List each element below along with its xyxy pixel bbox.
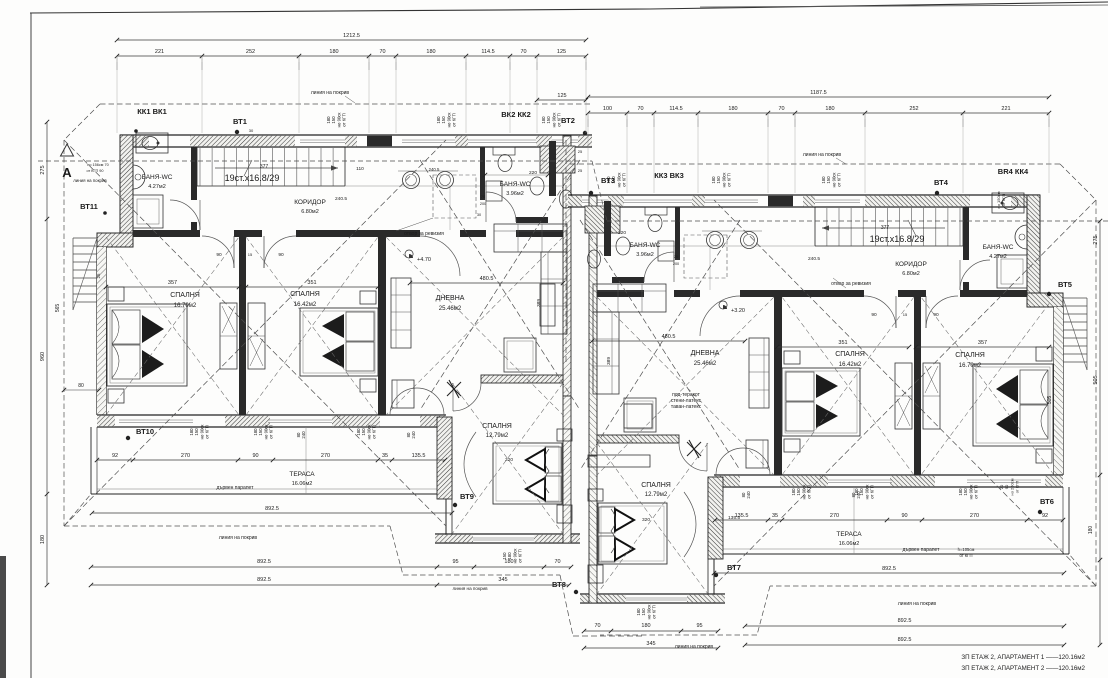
svg-text:114.5: 114.5 (669, 106, 682, 112)
top dimension chain overall left (117, 39, 586, 41)
svg-text:ВТ4: ВТ4 (934, 178, 949, 187)
living room sofa along divider (391, 278, 411, 348)
bottom dims under bedroom row right (715, 519, 1063, 521)
svg-text:90: 90 (252, 453, 258, 459)
top dimension chain segments left (117, 55, 586, 57)
room diagonals bedroom 2 (246, 237, 378, 415)
svg-text:505: 505 (1047, 396, 1053, 405)
svg-text:12.79м2: 12.79м2 (486, 433, 509, 439)
terrace outline and parapet (90, 427, 92, 494)
svg-text:70: 70 (379, 49, 385, 55)
bedroom 12.79 top wall (481, 375, 563, 383)
bathroom 1 east wall (191, 147, 197, 200)
svg-text:БАНЯ-WC: БАНЯ-WC (500, 181, 531, 188)
svg-text:125: 125 (557, 93, 566, 99)
svg-text:90: 90 (871, 312, 877, 318)
bottom dims bedroom 12.79 right (584, 630, 718, 632)
svg-text:389: 389 (536, 299, 542, 307)
svg-text:ВТ9: ВТ9 (460, 492, 474, 501)
svg-text:линия на покрив: линия на покрив (675, 644, 714, 650)
svg-text:4.27м2: 4.27м2 (989, 254, 1007, 260)
svg-text:320: 320 (505, 457, 513, 463)
exterior wall left upper (hatched) (120, 135, 133, 240)
svg-text:16.42м2: 16.42м2 (839, 362, 862, 368)
room width dims right (916, 346, 1049, 348)
bedroom 12.79 west wall lower (445, 499, 447, 543)
svg-text:от КГП: от КГП (1001, 194, 1006, 207)
revision hatch dashed rectangle (433, 175, 476, 218)
svg-text:892.5: 892.5 (898, 618, 912, 624)
svg-text:от КГП: от КГП (518, 549, 523, 562)
svg-text:92: 92 (112, 453, 118, 459)
sheet left border line (30, 13, 32, 678)
sheet top border line (30, 9, 650, 13)
svg-text:КОРИДОР: КОРИДОР (895, 261, 927, 268)
svg-text:от КГП: от КГП (622, 173, 627, 186)
svg-text:357: 357 (168, 280, 177, 286)
svg-text:892.5: 892.5 (257, 577, 271, 583)
bathroom 1 washbasin (133, 165, 145, 189)
svg-text:от КГП: от КГП (959, 553, 972, 558)
terrace mid line (305, 427, 307, 494)
svg-text:ВТ6: ВТ6 (1040, 497, 1054, 506)
room diagonals living (386, 237, 563, 415)
svg-text:70: 70 (637, 106, 643, 112)
section line A-A (38, 160, 592, 162)
svg-text:892.5: 892.5 (265, 506, 279, 512)
svg-text:252: 252 (909, 106, 918, 112)
svg-text:25.46м2: 25.46м2 (439, 306, 462, 312)
svg-text:180: 180 (329, 49, 338, 55)
svg-text:200: 200 (673, 262, 679, 266)
svg-text:от КГП: от КГП (727, 173, 732, 186)
bedroom 12.79 door arc (453, 383, 481, 411)
bed bedroom 12.79 (493, 443, 562, 504)
svg-text:70: 70 (778, 106, 784, 112)
svg-text:240.5: 240.5 (335, 196, 347, 202)
svg-text:357: 357 (978, 340, 987, 346)
svg-text:от КГП: от КГП (837, 173, 842, 186)
svg-text:30: 30 (249, 128, 254, 133)
svg-text:270: 270 (181, 453, 190, 459)
svg-text:ЗП ЕТАЖ 2, АПАРТАМЕНТ 1 ——120.: ЗП ЕТАЖ 2, АПАРТАМЕНТ 1 ——120.16м2 (961, 654, 1085, 661)
bed 2 nightstands (360, 291, 376, 304)
bottom dims terrace right chains (714, 572, 1064, 574)
svg-text:от КГП: от КГП (1015, 481, 1020, 494)
svg-text:180: 180 (825, 106, 834, 112)
svg-text:377: 377 (881, 225, 890, 231)
svg-text:892.5: 892.5 (898, 637, 912, 643)
svg-text:92: 92 (1042, 513, 1048, 519)
roof diagonal X over living wing (420, 160, 580, 410)
bathroom 2 shaft (540, 146, 575, 173)
roof line dashed outline (63, 140, 65, 526)
svg-text:от КГП: от КГП (974, 485, 979, 498)
exterior wall left lower (96, 247, 98, 415)
staircase flight (196, 147, 198, 186)
bedroom 12.79 bottom wall (435, 533, 580, 535)
svg-text:240.5: 240.5 (808, 256, 820, 262)
svg-text:25: 25 (578, 149, 583, 154)
svg-text:90: 90 (216, 252, 222, 258)
room diagonals bedroom 12.79 (452, 383, 563, 534)
svg-text:от КГП: от КГП (652, 605, 657, 618)
top dimension chain overall right (588, 96, 1049, 98)
svg-text:1212.5: 1212.5 (343, 33, 360, 39)
svg-text:320: 320 (642, 517, 650, 523)
bedroom divider wall 1 (239, 237, 246, 415)
room width dims left (106, 286, 239, 288)
left chain 125 repeat (537, 99, 586, 101)
svg-text:отвор за ревизия: отвор за ревизия (831, 281, 871, 287)
svg-text:линия на покрив: линия на покрив (219, 535, 258, 541)
svg-text:960: 960 (40, 352, 46, 361)
svg-text:16.70м2: 16.70м2 (174, 303, 197, 309)
svg-text:70: 70 (674, 255, 678, 259)
svg-text:110: 110 (356, 166, 364, 172)
sheet corner dark edge strip (0, 556, 6, 678)
svg-text:КК1 ВК1: КК1 ВК1 (137, 107, 167, 116)
svg-text:25: 25 (96, 273, 101, 279)
svg-text:КК3 ВК3: КК3 ВК3 (654, 171, 684, 180)
bed 12.79 pillows (545, 447, 561, 473)
stair direction arrow (215, 167, 338, 169)
svg-text:25: 25 (578, 168, 583, 173)
opening living room arc (420, 236, 460, 276)
roof hip bottom-left (64, 494, 91, 526)
bathroom 2 door arc (486, 192, 516, 222)
bathroom 2 washbasin (530, 177, 544, 195)
corridor floor line under stairs (345, 185, 563, 187)
svg-text:16.06м2: 16.06м2 (839, 541, 860, 547)
exterior wall step (97, 233, 133, 247)
svg-text:ДНЕВНА: ДНЕВНА (436, 295, 465, 302)
svg-text:СПАЛНЯ: СПАЛНЯ (641, 482, 671, 489)
bathroom 1 fixtures: toilet (136, 133, 168, 153)
svg-text:6.80м2: 6.80м2 (301, 209, 319, 215)
svg-text:ВТ2: ВТ2 (561, 116, 575, 125)
svg-text:12.79м2: 12.79м2 (645, 492, 668, 498)
roof hip top-left (64, 104, 100, 140)
svg-text:БАНЯ-WC: БАНЯ-WC (142, 174, 173, 181)
svg-text:19ст.х16.8/29: 19ст.х16.8/29 (225, 173, 280, 183)
terrace french door arcs (390, 388, 417, 415)
svg-text:35: 35 (772, 513, 778, 519)
svg-text:275: 275 (40, 165, 46, 174)
coffee table (504, 338, 536, 372)
svg-text:СПАЛНЯ: СПАЛНЯ (835, 351, 865, 358)
right living table (588, 455, 650, 467)
svg-text:16.42м2: 16.42м2 (294, 302, 317, 308)
svg-text:270: 270 (830, 513, 839, 519)
svg-text:220: 220 (618, 230, 626, 236)
svg-text:240: 240 (411, 431, 416, 439)
svg-text:345: 345 (646, 641, 655, 647)
svg-text:90: 90 (278, 252, 284, 258)
left small dim 80 (64, 389, 99, 391)
svg-text:90: 90 (901, 513, 907, 519)
exterior stair at left wall (73, 237, 97, 239)
svg-text:от КГП: от КГП (452, 113, 457, 126)
terrace end hatched pier (437, 417, 452, 499)
door arc bedroom 2 (264, 236, 296, 268)
svg-text:СПАЛНЯ: СПАЛНЯ (482, 423, 512, 430)
svg-text:80: 80 (78, 383, 84, 389)
svg-text:15: 15 (248, 252, 253, 257)
svg-text:ТЕРАСА: ТЕРАСА (289, 471, 315, 478)
svg-text:линия на покрив: линия на покрив (73, 178, 107, 183)
svg-text:90: 90 (933, 312, 939, 318)
svg-text:351: 351 (307, 280, 316, 286)
right living dresser (540, 284, 555, 326)
svg-text:270: 270 (321, 453, 330, 459)
exterior wall top band (120, 134, 592, 136)
right vertical dimension chain (1099, 221, 1101, 645)
svg-text:70: 70 (554, 559, 560, 565)
room diagonals bedroom 1 (106, 237, 239, 415)
roof diagonal X over bedroom wing (64, 140, 446, 526)
svg-text:270: 270 (970, 513, 979, 519)
svg-text:линия на покрив: линия на покрив (311, 90, 350, 96)
svg-text:275: 275 (1093, 235, 1099, 244)
svg-text:351: 351 (838, 340, 847, 346)
svg-text:ДНЕВНА: ДНЕВНА (691, 350, 720, 357)
svg-text:180: 180 (641, 623, 650, 629)
svg-text:125: 125 (557, 49, 566, 55)
door arc bedroom 1 (202, 236, 234, 268)
svg-text:3.96м2: 3.96м2 (506, 191, 524, 197)
svg-text:25.46м2: 25.46м2 (694, 361, 717, 367)
svg-text:ВТ10: ВТ10 (136, 427, 154, 436)
svg-text:ВК2 КК2: ВК2 КК2 (501, 110, 531, 119)
flower symbol right (687, 440, 701, 458)
svg-text:180: 180 (728, 106, 737, 112)
party wall bay segment (549, 141, 556, 196)
svg-text:1187.5: 1187.5 (810, 90, 826, 96)
bottom dims bedroom 12.79 left (91, 584, 569, 586)
svg-text:240.5: 240.5 (429, 167, 440, 172)
bottom dims under bedroom row left (97, 459, 445, 461)
bed 2 pillows (346, 312, 374, 341)
svg-text:от КГП: от КГП (205, 425, 210, 438)
svg-text:ВТ8: ВТ8 (552, 580, 566, 589)
bedroom divider wall 2 (378, 237, 386, 415)
top dimension chain segments right (588, 112, 1049, 114)
svg-text:4.27м2: 4.27м2 (148, 184, 166, 190)
svg-text:505: 505 (1093, 375, 1099, 384)
svg-text:200: 200 (480, 202, 486, 206)
svg-text:345: 345 (498, 577, 507, 583)
bathroom 2 toilet (493, 147, 515, 155)
bathroom 2 washer (486, 181, 502, 201)
party wall lower extension (563, 396, 571, 543)
svg-text:252: 252 (246, 49, 255, 55)
svg-text:892.5: 892.5 (257, 559, 271, 565)
svg-text:565: 565 (55, 304, 61, 313)
roof dash jog left apartment (560, 575, 573, 636)
svg-text:ВТ11: ВТ11 (80, 202, 98, 211)
svg-text:таван-латекс: таван-латекс (671, 404, 702, 410)
svg-text:100: 100 (603, 106, 612, 112)
armchair living room (392, 380, 414, 408)
svg-text:30: 30 (477, 213, 481, 217)
corridor south wall (133, 230, 200, 237)
bed 1 nightstands (108, 287, 124, 301)
bed bedroom 2 (300, 308, 378, 376)
svg-text:389: 389 (606, 357, 612, 365)
svg-text:А: А (62, 165, 72, 180)
level mark right +3.20 (719, 301, 727, 309)
roof dash between apartments (565, 140, 567, 362)
svg-text:от КГП: от КГП (372, 425, 377, 438)
svg-text:180: 180 (426, 49, 435, 55)
svg-text:ВТ1: ВТ1 (233, 117, 247, 126)
svg-text:70: 70 (520, 49, 526, 55)
bathroom 1 shower tray (133, 195, 163, 228)
svg-text:BR4 КК4: BR4 КК4 (998, 167, 1029, 176)
svg-text:95: 95 (452, 559, 458, 565)
party wall right side (563, 136, 571, 396)
washing machines in corridor niche (403, 172, 420, 189)
svg-text:линия на покрив: линия на покрив (452, 586, 488, 591)
svg-text:СПАЛНЯ: СПАЛНЯ (955, 352, 985, 359)
svg-text:6.80м2: 6.80м2 (902, 271, 920, 277)
svg-text:от КГП 90: от КГП 90 (86, 169, 103, 173)
svg-text:БАНЯ-WC: БАНЯ-WC (983, 244, 1014, 251)
svg-text:70: 70 (594, 623, 600, 629)
svg-text:892.5: 892.5 (882, 566, 896, 572)
svg-text:ТЕРАСА: ТЕРАСА (836, 531, 862, 538)
left vertical dimension chain (46, 122, 48, 585)
svg-text:от КГП: от КГП (870, 485, 875, 498)
svg-text:240: 240 (746, 491, 751, 499)
right apartment mirrored geometry (568, 164, 1096, 635)
svg-text:480.5: 480.5 (480, 276, 494, 282)
svg-text:95: 95 (696, 623, 702, 629)
svg-text:+4.70: +4.70 (417, 257, 431, 263)
bottom dims terrace left chains (92, 512, 452, 514)
exterior wall bottom of bedroom row (97, 414, 446, 416)
svg-text:КОРИДОР: КОРИДОР (294, 199, 326, 206)
svg-text:180: 180 (1088, 526, 1094, 535)
bay washbasin (560, 190, 573, 208)
svg-text:70: 70 (481, 195, 485, 199)
svg-text:19ст.х16.8/29: 19ст.х16.8/29 (870, 234, 925, 244)
svg-text:дървен парапет: дървен парапет (217, 485, 255, 491)
svg-text:ЗП ЕТАЖ 2, АПАРТАМЕНТ 2 ——120.: ЗП ЕТАЖ 2, АПАРТАМЕНТ 2 ——120.16м2 (961, 665, 1085, 672)
svg-text:+3.20: +3.20 (731, 308, 745, 314)
bed 12.79 nightstands (557, 429, 572, 441)
bed 1 pillows (112, 310, 140, 344)
svg-text:480.5: 480.5 (662, 334, 676, 340)
svg-text:15: 15 (903, 312, 908, 317)
svg-text:377: 377 (260, 164, 269, 170)
svg-text:ВТ5: ВТ5 (1058, 280, 1072, 289)
svg-text:СПАЛНЯ: СПАЛНЯ (290, 291, 320, 298)
svg-text:35: 35 (382, 453, 388, 459)
svg-text:3.96м2: 3.96м2 (636, 252, 654, 258)
svg-text:180: 180 (40, 535, 46, 544)
svg-text:221: 221 (155, 49, 164, 55)
svg-text:16.70м2: 16.70м2 (959, 363, 982, 369)
svg-text:114.5: 114.5 (481, 49, 494, 55)
svg-text:221: 221 (1001, 106, 1010, 112)
living room sofa right (541, 252, 567, 334)
svg-text:240: 240 (856, 491, 861, 499)
bathroom 2 walls (480, 147, 485, 200)
svg-text:h=105см: h=105см (958, 547, 975, 552)
level mark left +4.70 (405, 250, 413, 258)
bedroom 12.79 west door swing (464, 432, 476, 497)
svg-text:линия на покрив: линия на покрив (898, 601, 937, 607)
svg-text:ВТ7: ВТ7 (727, 563, 741, 572)
svg-text:от КГП: от КГП (557, 113, 562, 126)
svg-text:135.5: 135.5 (412, 453, 426, 459)
svg-text:от КГП: от КГП (269, 425, 274, 438)
bathroom 1 door arc (170, 200, 200, 230)
living room sofa top (494, 224, 567, 252)
svg-text:16.06м2: 16.06м2 (292, 481, 313, 487)
svg-text:но 156см 70: но 156см 70 (87, 163, 108, 167)
flower symbol left (447, 380, 461, 398)
section marker A left (61, 144, 74, 156)
bed bedroom 1 (107, 304, 187, 386)
svg-text:135.5: 135.5 (728, 515, 740, 521)
svg-text:дървен парапет: дървен парапет (903, 547, 941, 553)
svg-text:от КГП: от КГП (807, 485, 812, 498)
wardrobes at divider 1 (220, 303, 237, 369)
svg-text:отвор за ревизия: отвор за ревизия (404, 231, 444, 237)
right living armchair (624, 404, 652, 428)
svg-text:СПАЛНЯ: СПАЛНЯ (170, 292, 200, 299)
svg-text:БАНЯ-WC: БАНЯ-WC (630, 242, 661, 249)
svg-text:линия на покрив: линия на покрив (803, 152, 842, 158)
svg-text:от КГП: от КГП (342, 113, 347, 126)
svg-text:240: 240 (301, 431, 306, 439)
